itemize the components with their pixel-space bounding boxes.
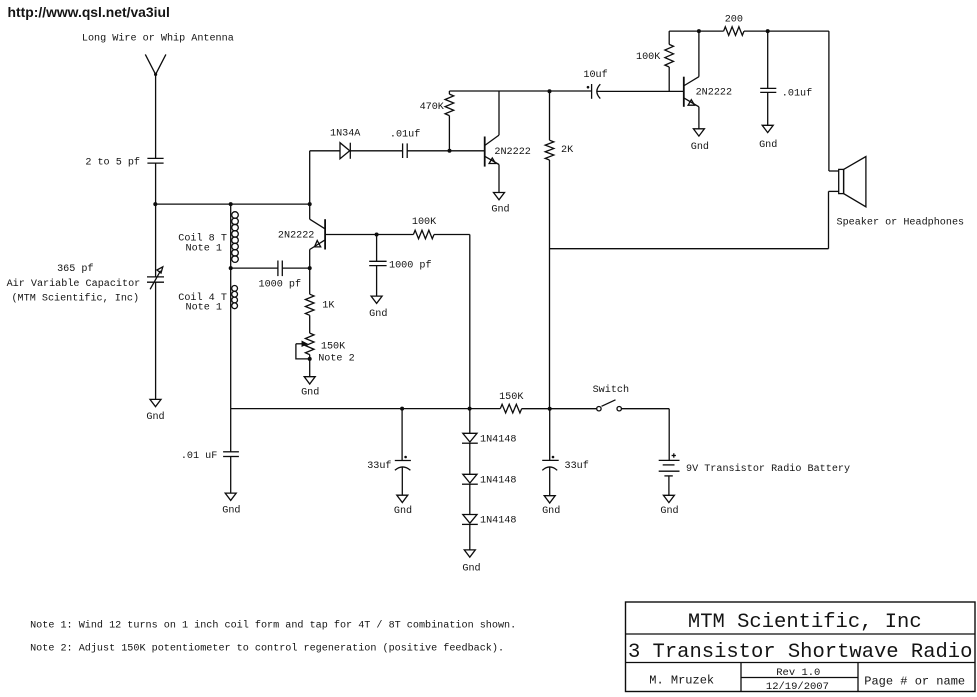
svg-text:Gnd: Gnd bbox=[146, 411, 164, 423]
svg-text:150K: 150K bbox=[499, 392, 524, 403]
svg-text:Air Variable Capacitor: Air Variable Capacitor bbox=[7, 278, 141, 290]
svg-text:Rev 1.0: Rev 1.0 bbox=[776, 667, 820, 679]
svg-text:470K: 470K bbox=[420, 102, 445, 113]
svg-text:2K: 2K bbox=[561, 145, 574, 156]
svg-text:Note 2: Note 2 bbox=[318, 354, 354, 365]
svg-text:.01uf: .01uf bbox=[782, 88, 812, 100]
svg-text:1N4148: 1N4148 bbox=[480, 516, 516, 527]
svg-text:365 pf: 365 pf bbox=[57, 263, 93, 275]
svg-text:150K: 150K bbox=[321, 342, 346, 353]
svg-text:Page # or name: Page # or name bbox=[864, 675, 965, 689]
svg-text:2N2222: 2N2222 bbox=[278, 231, 314, 242]
svg-text:.01uf: .01uf bbox=[390, 129, 420, 141]
svg-text:Gnd: Gnd bbox=[394, 505, 412, 517]
svg-text:Gnd: Gnd bbox=[301, 387, 319, 399]
svg-text:100K: 100K bbox=[412, 217, 437, 228]
svg-text:200: 200 bbox=[725, 15, 743, 26]
svg-text:10uf: 10uf bbox=[583, 69, 607, 81]
svg-text:Note 1: Note 1 bbox=[186, 303, 222, 314]
svg-text:Note 2: Adjust 150K potentiome: Note 2: Adjust 150K potentiometer to con… bbox=[30, 643, 504, 655]
svg-text:Gnd: Gnd bbox=[222, 505, 240, 517]
svg-text:1N4148: 1N4148 bbox=[480, 435, 516, 446]
svg-text:9V Transistor Radio Battery: 9V Transistor Radio Battery bbox=[686, 463, 850, 475]
svg-text:Note 1: Note 1 bbox=[186, 243, 222, 254]
svg-text:Gnd: Gnd bbox=[660, 505, 678, 517]
svg-text:Switch: Switch bbox=[593, 384, 629, 396]
svg-text:1N4148: 1N4148 bbox=[480, 476, 516, 487]
svg-text:Gnd: Gnd bbox=[691, 141, 709, 153]
svg-text:33uf: 33uf bbox=[565, 460, 589, 472]
svg-text:100K: 100K bbox=[636, 52, 661, 63]
svg-text:1000 pf: 1000 pf bbox=[259, 279, 302, 291]
svg-text:Gnd: Gnd bbox=[462, 563, 480, 575]
svg-text:2 to 5 pf: 2 to 5 pf bbox=[85, 157, 140, 169]
svg-text:M. Mruzek: M. Mruzek bbox=[649, 674, 714, 688]
svg-text:Long Wire or Whip Antenna: Long Wire or Whip Antenna bbox=[82, 33, 234, 45]
svg-text:3 Transistor Shortwave Radio: 3 Transistor Shortwave Radio bbox=[628, 641, 972, 664]
svg-text:Gnd: Gnd bbox=[759, 139, 777, 151]
svg-text:1000 pf: 1000 pf bbox=[389, 260, 432, 272]
svg-text:Gnd: Gnd bbox=[369, 308, 387, 320]
svg-text:Speaker or Headphones: Speaker or Headphones bbox=[837, 217, 965, 229]
svg-text:.01 uF: .01 uF bbox=[181, 451, 217, 462]
svg-text:MTM Scientific, Inc: MTM Scientific, Inc bbox=[688, 611, 922, 634]
svg-text:2N2222: 2N2222 bbox=[494, 147, 530, 158]
svg-text:1N34A: 1N34A bbox=[330, 129, 361, 140]
svg-text:Gnd: Gnd bbox=[542, 505, 560, 517]
svg-text:(MTM Scientific, Inc): (MTM Scientific, Inc) bbox=[11, 293, 139, 305]
svg-text:12/19/2007: 12/19/2007 bbox=[766, 681, 829, 693]
svg-text:http://www.qsl.net/va3iul: http://www.qsl.net/va3iul bbox=[8, 4, 170, 20]
svg-text:Note 1: Wind 12 turns on 1 inc: Note 1: Wind 12 turns on 1 inch coil for… bbox=[30, 620, 516, 632]
svg-text:1K: 1K bbox=[322, 301, 335, 312]
svg-text:Gnd: Gnd bbox=[491, 204, 509, 216]
svg-text:2N2222: 2N2222 bbox=[696, 88, 732, 99]
svg-text:33uf: 33uf bbox=[367, 460, 391, 472]
